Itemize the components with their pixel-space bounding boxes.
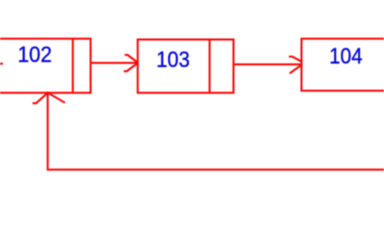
node 102 box [0,39,91,93]
wire arrow 103 to 104 shaft [234,63,302,65]
svg-text:102: 102 [18,42,52,67]
svg-text:104: 104 [329,44,362,69]
arrowhead 103 to 104 [289,57,302,74]
node 103 box [138,40,234,93]
arrowhead 102 to 103 [124,55,138,71]
node 103 divider [209,40,211,93]
wire arrow 102 to 103 shaft [91,62,138,64]
loop wire from right edge back up into node 102 [48,92,384,170]
incoming wire stub at left edge [0,63,3,65]
loop arrowhead into bottom of node 102 [33,93,66,103]
node 102 divider [72,39,74,93]
node 104 box [302,39,384,91]
svg-text:103: 103 [156,47,190,72]
